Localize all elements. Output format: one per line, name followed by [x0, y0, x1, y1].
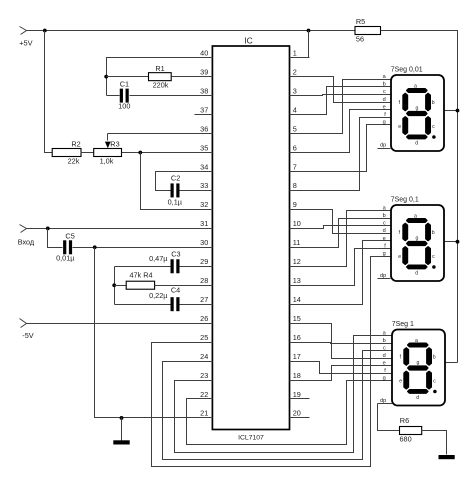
pin 17 stub and number	[290, 352, 310, 362]
svg-text:b: b	[383, 213, 386, 219]
svg-text:7Seg 1: 7Seg 1	[392, 321, 414, 328]
svg-text:g: g	[383, 376, 386, 382]
svg-text:0,01µ: 0,01µ	[56, 253, 75, 262]
svg-text:30: 30	[200, 238, 208, 247]
svg-text:13: 13	[293, 276, 301, 285]
wire: R3 wiper to pin 36	[108, 133, 213, 135]
svg-text:100: 100	[118, 102, 130, 111]
svg-text:e: e	[398, 124, 401, 130]
pin 39 stub and number	[195, 67, 213, 76]
node: Вход / C5 branch junction	[46, 226, 50, 230]
svg-text:27: 27	[200, 295, 208, 304]
wire: junction down to C5	[48, 229, 63, 248]
resistor R5	[355, 27, 381, 35]
C3 label	[171, 249, 180, 258]
svg-text:g: g	[383, 251, 386, 257]
C3 value 0,47µ	[149, 254, 168, 263]
pin 20 stub and number	[290, 409, 310, 418]
wire: pin 8 to DS1 segment f	[290, 118, 391, 191]
+5V input terminal	[20, 27, 27, 35]
svg-text:12: 12	[293, 257, 301, 266]
svg-text:6: 6	[293, 143, 297, 152]
svg-text:7Seg 0,1: 7Seg 0,1	[391, 196, 419, 203]
DS3 digit segments	[399, 338, 436, 401]
svg-text:37: 37	[200, 105, 208, 114]
R1 label	[155, 64, 164, 73]
R6 label	[400, 416, 409, 425]
pin 24 stub and number	[195, 352, 213, 362]
pin 25 stub and number	[195, 333, 213, 343]
op-amp-style main chip body U1 ICL7107	[212, 46, 289, 430]
ground symbol (right)	[439, 455, 455, 459]
pin 13 stub and number	[290, 276, 310, 285]
wire: C5 to pin 30	[73, 247, 213, 249]
C4 value 0,22µ	[149, 291, 168, 300]
C1 label	[120, 79, 129, 88]
wire: R4 to pin 28	[155, 285, 213, 287]
svg-text:4: 4	[293, 105, 297, 114]
DS3 dp lead stub	[378, 403, 393, 405]
R4 label 47k R4	[129, 271, 152, 280]
wire: Вход to pin 31	[27, 228, 213, 230]
wire: pin 6 to DS1 segment e	[290, 110, 391, 153]
pin 1 stub and number	[290, 49, 310, 58]
+5V label	[19, 38, 32, 47]
svg-text:a: a	[414, 83, 417, 89]
wire: C3 to pin 29	[180, 266, 213, 268]
-5V label	[22, 331, 33, 340]
svg-text:20: 20	[293, 409, 301, 418]
pin 9 stub and number	[290, 200, 310, 209]
wire: pin 16 to DS3 segment b	[290, 343, 393, 344]
svg-text:25: 25	[200, 333, 208, 342]
wire: pin 14 to DS2 segment e	[290, 241, 391, 305]
svg-text:Вход: Вход	[18, 237, 35, 246]
DS2 dp lead stub	[378, 278, 391, 280]
R3 label	[110, 140, 119, 149]
wire: pin 15 to DS3 segment d	[290, 324, 393, 359]
pin 37 stub and number	[195, 105, 213, 114]
svg-text:0,1µ: 0,1µ	[168, 197, 183, 206]
IC top label	[244, 36, 253, 46]
C2 label	[171, 174, 180, 183]
wire: junction down to pin 32	[141, 153, 213, 210]
svg-text:c: c	[383, 89, 386, 95]
pin 4 stub and number	[290, 105, 310, 114]
svg-text:31: 31	[200, 219, 208, 228]
svg-text:e: e	[398, 254, 401, 260]
R2 label	[71, 140, 80, 149]
svg-text:IC: IC	[244, 36, 253, 46]
DS3 label 7Seg 1	[392, 321, 414, 328]
R6 value 680	[400, 435, 412, 444]
wire: rail stub to display DS2	[445, 241, 458, 243]
wire: DS3 dp down to R6	[378, 404, 400, 431]
svg-text:c: c	[432, 254, 435, 260]
svg-text:b: b	[432, 100, 435, 106]
wire: R1 to pin 39	[172, 76, 213, 78]
wire: rail stub to display DS1	[445, 110, 458, 112]
svg-text:7Seg 0,01: 7Seg 0,01	[391, 66, 423, 73]
capacitor C3	[171, 259, 180, 273]
pin 27 stub and number	[195, 295, 213, 305]
R1 value 220k	[153, 81, 169, 90]
pin 35 stub and number	[195, 143, 213, 152]
svg-text:14: 14	[293, 295, 301, 304]
svg-text:c: c	[433, 378, 436, 384]
IC bottom label ICL7107	[238, 434, 264, 441]
DS1 lead labels a-g and dp	[380, 74, 387, 148]
svg-text:38: 38	[200, 86, 208, 95]
svg-text:1,0k: 1,0k	[100, 156, 114, 165]
input terminal Вход	[20, 225, 27, 233]
wire: pin 12 to DS2 segment a	[290, 211, 391, 267]
svg-text:8: 8	[293, 181, 297, 190]
C4 label	[171, 286, 180, 295]
resistor R4	[126, 281, 154, 289]
svg-text:C5: C5	[65, 231, 74, 240]
svg-text:R1: R1	[155, 64, 164, 73]
svg-text:26: 26	[200, 314, 208, 323]
svg-text:1: 1	[293, 49, 297, 58]
R3 value 1,0k	[100, 156, 114, 165]
svg-text:5: 5	[293, 124, 297, 133]
node: pin 1 tap on +5V rail	[307, 29, 311, 33]
pin 16 stub and number	[290, 333, 310, 343]
DS2 lead labels a-g and dp	[380, 205, 387, 279]
svg-text:22: 22	[200, 390, 208, 399]
wire: C2 to pin 33	[180, 190, 213, 192]
C5 value 0,01µ	[56, 253, 75, 262]
wire: -5V to pin 26	[27, 323, 213, 325]
pin 28 stub and number	[195, 276, 213, 285]
svg-text:10: 10	[293, 219, 301, 228]
wire: bus to C1	[107, 95, 120, 97]
svg-text:g: g	[416, 235, 419, 241]
pin 8 stub and number	[290, 181, 310, 190]
wire: bus to C4	[115, 304, 171, 306]
svg-text:g: g	[416, 105, 419, 111]
wire: junction down to pin 21 ground line	[95, 248, 213, 418]
C1 value 100	[118, 102, 130, 111]
svg-text:40: 40	[200, 49, 208, 58]
svg-text:11: 11	[293, 238, 301, 247]
integrator bus node A	[114, 267, 116, 305]
svg-text:18: 18	[293, 371, 301, 380]
capacitor C4	[171, 297, 180, 311]
svg-text:32: 32	[200, 200, 208, 209]
pin 22 stub and number	[195, 390, 213, 399]
wire: rail stub to display DS3	[445, 362, 458, 364]
wire: pin 17 to DS3 segment f	[290, 362, 393, 374]
svg-text:C3: C3	[171, 249, 180, 258]
svg-text:35: 35	[200, 143, 208, 152]
capacitor C2	[171, 183, 180, 197]
wire: pin 9 to DS2 segment d	[290, 210, 391, 234]
svg-text:47k R4: 47k R4	[129, 271, 152, 280]
svg-text:d: d	[415, 140, 418, 146]
svg-text:C2: C2	[171, 174, 180, 183]
pin 33 stub and number	[195, 181, 213, 190]
C5 label	[65, 231, 74, 240]
pin 7 stub and number	[290, 162, 310, 171]
wire: pin 34 to C2 branch	[156, 172, 213, 191]
svg-text:33: 33	[200, 181, 208, 190]
pin 18 stub and number	[290, 371, 310, 381]
wire: pin 2 to DS1 segment d	[290, 77, 391, 103]
wire: pin 11 to DS2 segment b	[290, 219, 391, 248]
svg-text:680: 680	[400, 435, 412, 444]
wire: pin 22 loop under IC to display segment	[187, 381, 393, 445]
svg-text:g: g	[417, 360, 420, 366]
wire: pin 1 riser to +5V rail	[290, 31, 309, 58]
node: ground tap junction	[120, 416, 124, 420]
svg-text:28: 28	[200, 276, 208, 285]
C2 value 0,1µ	[168, 197, 183, 206]
wire: pin 40 to oscillator bus	[107, 58, 213, 96]
wire: R5 to right display rail	[381, 31, 458, 363]
pin 38 stub and number	[195, 86, 213, 95]
svg-text:22k: 22k	[68, 156, 80, 165]
wire: bus to R1	[107, 76, 149, 78]
svg-text:7: 7	[293, 162, 297, 171]
resistor R1	[149, 73, 172, 81]
svg-text:56: 56	[356, 35, 364, 44]
resistor R6	[400, 427, 422, 435]
svg-text:R5: R5	[356, 17, 365, 26]
pin 6 stub and number	[290, 143, 310, 152]
DS1 digit segments	[398, 83, 435, 146]
pin 10 stub and number	[290, 219, 310, 228]
capacitor C1	[120, 89, 129, 103]
svg-text:c: c	[432, 124, 435, 130]
svg-text:29: 29	[200, 257, 208, 266]
R5 label	[356, 17, 365, 26]
svg-text:16: 16	[293, 333, 301, 342]
svg-text:e: e	[383, 104, 386, 110]
wire: pin 23 loop under IC to display segment	[175, 336, 393, 453]
svg-text:R2: R2	[71, 140, 80, 149]
node: rail / DS1 junction	[456, 109, 460, 113]
pin 40 stub and number	[195, 49, 213, 58]
pin 12 stub and number	[290, 257, 310, 266]
svg-text:a: a	[414, 213, 417, 219]
wire: C4 to pin 27	[180, 304, 213, 306]
node: R1 tap on oscillator bus	[104, 75, 108, 79]
svg-text:g: g	[383, 120, 386, 126]
svg-text:b: b	[432, 230, 435, 236]
wire: pin 7 to DS1 segment g	[290, 125, 391, 172]
pin 21 stub and number	[195, 409, 213, 418]
svg-text:dp: dp	[380, 142, 386, 148]
DS1 label 7Seg 0,01	[391, 66, 423, 73]
wire: pin 13 to DS2 segment f	[290, 249, 391, 286]
pin 26 stub and number	[195, 314, 213, 324]
-5V input terminal	[20, 319, 27, 328]
wire: bus to C3	[115, 266, 171, 268]
pin 29 stub and number	[195, 257, 213, 266]
svg-text:C4: C4	[171, 286, 180, 295]
pin 32 stub and number	[195, 200, 213, 209]
svg-text:0,47µ: 0,47µ	[149, 254, 168, 263]
wire: R6 to ground	[422, 431, 447, 455]
DS3 lead labels a-g and dp	[380, 331, 387, 404]
svg-text:d: d	[383, 228, 386, 234]
wire: C1 to pin 38	[130, 95, 213, 97]
svg-text:23: 23	[200, 371, 208, 380]
R2 value 22k	[68, 156, 80, 165]
Вход label	[18, 237, 35, 246]
svg-text:R3: R3	[110, 140, 119, 149]
wire: +5V left rail down to R2	[45, 31, 53, 153]
pin 5 stub and number	[290, 124, 310, 133]
wire: pin 3 to DS1 segment c	[290, 95, 391, 96]
wire: +5V rail to R5	[27, 30, 355, 32]
svg-text:b: b	[383, 82, 386, 88]
svg-text:9: 9	[293, 200, 297, 209]
svg-text:a: a	[415, 338, 418, 344]
pin 14 stub and number	[290, 295, 310, 305]
R5 value 56	[356, 35, 364, 44]
wire: pin 4 to DS1 segment b	[290, 87, 391, 115]
svg-text:19: 19	[293, 390, 301, 399]
pin 23 stub and number	[195, 371, 213, 381]
svg-text:d: d	[383, 97, 386, 103]
svg-text:e: e	[383, 361, 386, 367]
svg-text:39: 39	[200, 67, 208, 76]
7-segment display DS3 body	[392, 330, 445, 406]
svg-text:d: d	[416, 395, 419, 401]
node: C5 / ground branch junction	[93, 245, 97, 249]
capacitor C5	[63, 240, 72, 254]
svg-text:c: c	[383, 346, 386, 352]
node: R4 tap on bus	[112, 283, 116, 287]
wire: pin 18 to DS3 segment e	[290, 366, 393, 381]
svg-text:2: 2	[293, 67, 297, 76]
svg-text:-5V: -5V	[22, 331, 33, 340]
svg-text:d: d	[415, 270, 418, 276]
pin 19 stub and number	[290, 390, 310, 399]
wire: pin 10 to DS2 segment c	[290, 226, 391, 229]
wire: pin 5 to DS1 segment a	[290, 80, 391, 134]
node: +5V / left rail junction	[43, 29, 47, 33]
svg-text:17: 17	[293, 352, 301, 361]
svg-text:c: c	[383, 221, 386, 227]
svg-text:+5V: +5V	[19, 38, 32, 47]
pin 34 stub and number	[195, 162, 213, 171]
resistor R2	[52, 149, 81, 157]
pin 3 stub and number	[290, 86, 310, 95]
node: rail / DS2 junction	[456, 240, 460, 244]
ground symbol (left)	[113, 418, 129, 445]
svg-text:e: e	[383, 236, 386, 242]
pin 36 stub and number	[195, 124, 213, 133]
wire: R2 to R3	[81, 152, 94, 154]
potentiometer R3	[94, 149, 122, 157]
svg-text:R6: R6	[400, 416, 409, 425]
svg-text:e: e	[399, 378, 402, 384]
wire: bus to R4	[115, 285, 127, 287]
pin 2 stub and number	[290, 67, 310, 76]
pin 31 stub and number	[195, 219, 213, 228]
pin 15 stub and number	[290, 314, 310, 324]
node: R3 / pin 32 branch junction	[138, 151, 142, 155]
svg-text:36: 36	[200, 124, 208, 133]
R3 wiper arrow	[105, 134, 111, 149]
pin 30 stub and number	[195, 238, 213, 247]
svg-text:3: 3	[293, 86, 297, 95]
svg-text:b: b	[383, 338, 386, 344]
7-segment display DS2 body	[391, 205, 444, 281]
wire: pin 24 loop under IC to display segment	[163, 351, 393, 460]
svg-text:21: 21	[200, 409, 208, 418]
DS1 dp lead stub	[378, 148, 391, 150]
svg-text:ICL7107: ICL7107	[238, 434, 264, 441]
DS2 label 7Seg 0,1	[391, 196, 419, 203]
wire: pin 25 loop under IC to display segment	[152, 257, 391, 467]
svg-text:34: 34	[200, 162, 208, 171]
svg-text:b: b	[433, 355, 436, 361]
pin 11 stub and number	[290, 238, 310, 247]
svg-text:15: 15	[293, 314, 301, 323]
svg-text:24: 24	[200, 352, 208, 361]
wire: R3 to pin 35	[122, 152, 213, 154]
svg-text:C1: C1	[120, 79, 129, 88]
DS2 digit segments	[398, 213, 435, 276]
7-segment display DS1 body	[391, 75, 444, 151]
svg-text:220k: 220k	[153, 81, 169, 90]
svg-text:d: d	[383, 353, 386, 359]
svg-text:0,22µ: 0,22µ	[149, 291, 168, 300]
